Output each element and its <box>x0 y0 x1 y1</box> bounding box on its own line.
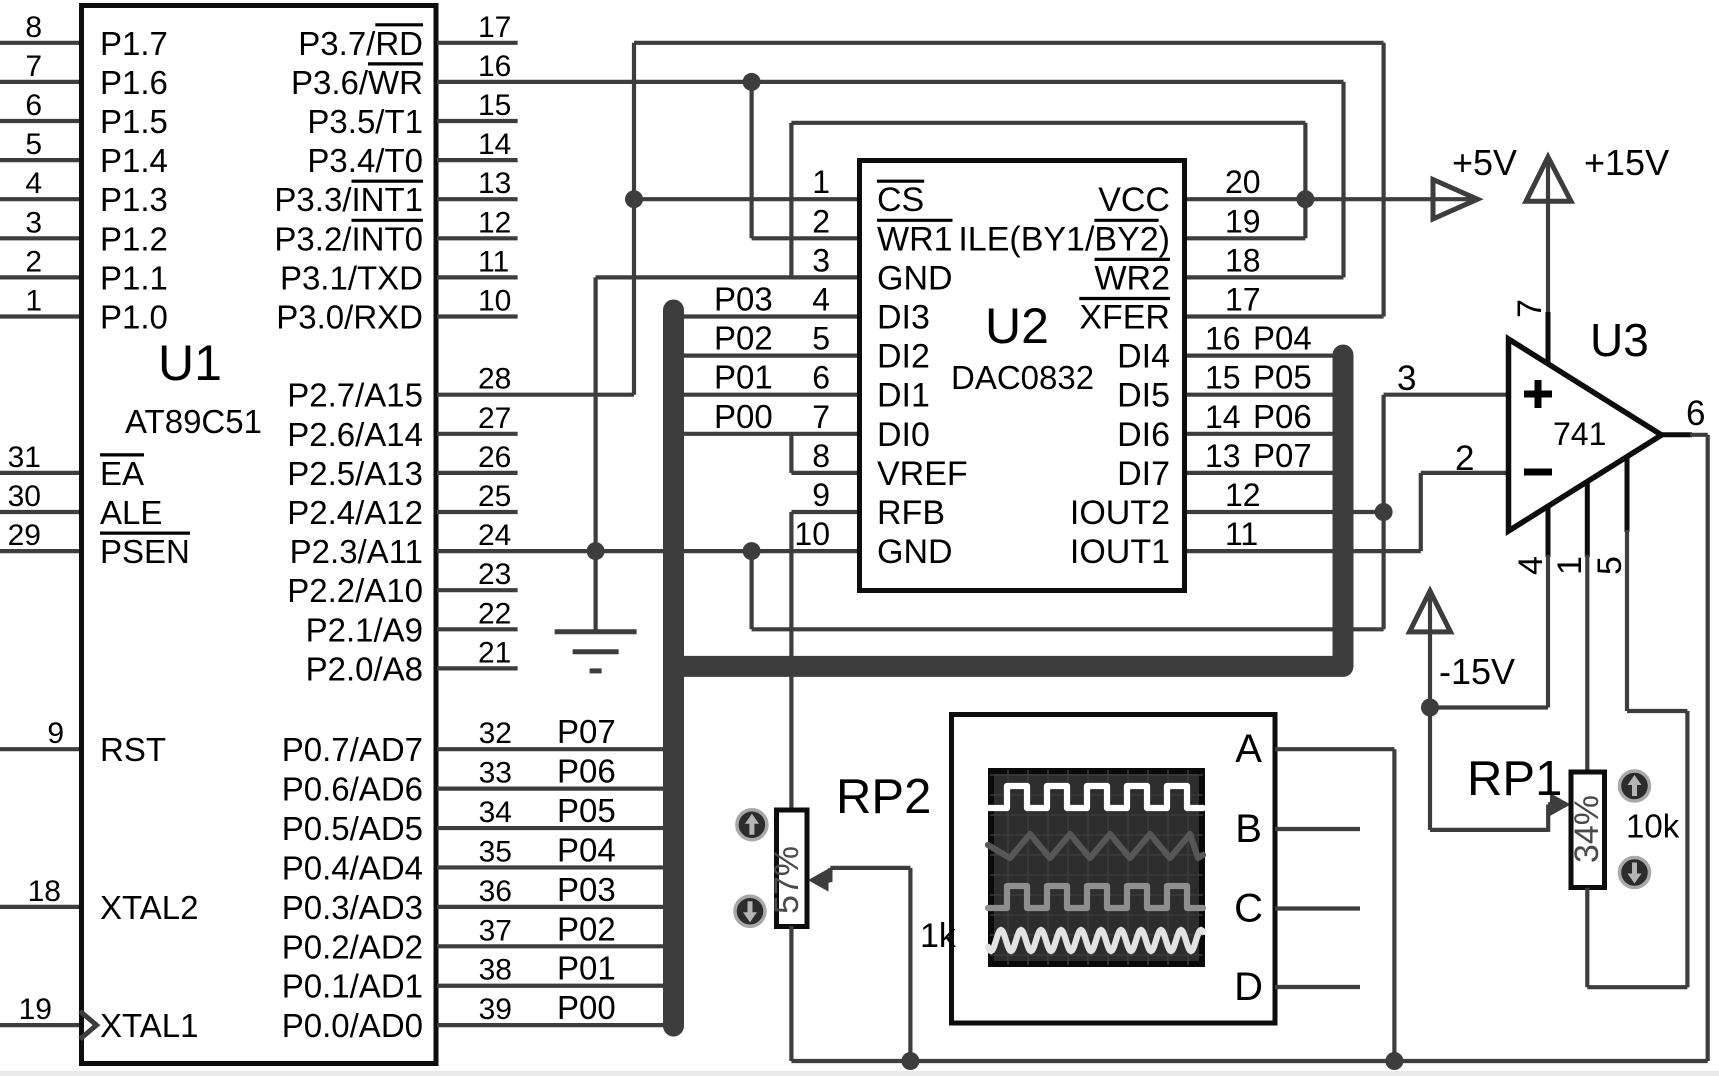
svg-text:D: D <box>1234 965 1263 1009</box>
svg-text:WR1: WR1 <box>877 220 953 258</box>
svg-text:-15V: -15V <box>1439 651 1515 692</box>
wire op-amp -input horizontal (pin2) <box>1421 471 1508 475</box>
waveform channel B (triangle) <box>988 834 1203 858</box>
wire scope A vertical to bottom net <box>1392 749 1396 1061</box>
wire IOUT1 vertical <box>1419 473 1423 551</box>
svg-text:DI6: DI6 <box>1117 416 1170 454</box>
svg-text:19: 19 <box>1225 203 1261 239</box>
junction RP2 wiper/bottom <box>901 1052 919 1070</box>
svg-text:37: 37 <box>479 914 512 947</box>
svg-text:P3.4/T0: P3.4/T0 <box>307 142 423 179</box>
svg-text:38: 38 <box>479 954 512 987</box>
svg-text:RFB: RFB <box>877 494 945 532</box>
svg-text:P07: P07 <box>557 713 616 750</box>
wire U1 pin 3 stub (P1.2) <box>0 236 79 240</box>
waveform channel C (square) <box>988 886 1203 908</box>
wire net CS top horizontal <box>634 41 1384 45</box>
svg-text:U1: U1 <box>158 335 222 391</box>
wire net P07: U2 DI7 (pin 13) to bus <box>1187 471 1343 475</box>
op-amp pin5 stub <box>1625 458 1630 533</box>
svg-text:P2.2/A10: P2.2/A10 <box>287 572 423 609</box>
svg-text:U3: U3 <box>1590 314 1649 366</box>
wire net P05: U2 DI5 (pin 15) to bus <box>1187 393 1343 397</box>
wire net CS vertical x634 <box>632 43 636 395</box>
RP2 wiper arrow <box>822 878 830 883</box>
svg-text:2: 2 <box>812 203 830 239</box>
junction GND ext <box>743 542 761 560</box>
bus horizontal + right vertical <box>674 355 1344 666</box>
svg-text:6: 6 <box>25 89 42 122</box>
svg-text:35: 35 <box>479 835 512 868</box>
wire net WR vertical to WR1 <box>749 82 753 238</box>
wire GND vertical to ground symbol <box>593 551 597 630</box>
RP1 up button <box>1620 771 1650 801</box>
wire GND ext vertical up to IOUT2 row <box>1381 512 1385 629</box>
wire RP2 wiper horizontal <box>830 866 910 870</box>
wire U1 pin 23 stub (P2.2/A10) <box>437 588 518 592</box>
svg-text:1: 1 <box>25 285 42 318</box>
svg-text:741: 741 <box>1553 416 1606 452</box>
wire U2 XFER pin17 stub <box>1187 314 1384 318</box>
svg-text:P1.5: P1.5 <box>100 103 168 140</box>
svg-text:26: 26 <box>478 441 511 474</box>
svg-text:15: 15 <box>1205 360 1241 396</box>
wire U1 pin 1 stub (P1.0) <box>0 314 79 318</box>
wire -15V down to RP1 wiper <box>1428 708 1432 830</box>
wire U1 pin 7 stub (P1.6) <box>0 80 79 84</box>
svg-text:P0.5/AD5: P0.5/AD5 <box>282 810 423 847</box>
wire pin4 vertical to -15V <box>1546 555 1550 708</box>
svg-text:CS: CS <box>877 181 924 219</box>
svg-text:27: 27 <box>478 402 511 435</box>
svg-text:11: 11 <box>1225 516 1258 552</box>
svg-text:2: 2 <box>1455 439 1474 478</box>
wire -15V to pin4 <box>1430 705 1548 709</box>
svg-text:P1.1: P1.1 <box>100 259 168 296</box>
svg-text:11: 11 <box>478 245 509 278</box>
wire GND ext horizontal to IOUT2 <box>752 627 1384 631</box>
wire U2 RFB pin9 stub <box>791 510 857 514</box>
svg-text:DAC0832: DAC0832 <box>951 359 1094 396</box>
wire U1 pin 8 stub (P1.7) <box>0 41 79 45</box>
wire op-amp +input horizontal (pin3) <box>1384 393 1508 397</box>
wire U1 pin 32 P0.7/AD7 to P0 bus <box>437 747 674 751</box>
svg-text:17: 17 <box>1225 282 1261 318</box>
svg-text:WR2: WR2 <box>1094 259 1170 297</box>
wire U1 pin 9 stub (RST) <box>0 747 79 751</box>
svg-text:3: 3 <box>812 242 830 278</box>
ground symbol <box>555 629 637 634</box>
svg-text:P0.0/AD0: P0.0/AD0 <box>282 1007 423 1044</box>
wire U1 pin 18 stub (XTAL2) <box>0 905 79 909</box>
svg-text:4: 4 <box>1512 556 1550 575</box>
svg-text:P04: P04 <box>557 831 616 868</box>
RP2 down button <box>735 896 765 926</box>
wire U2 GND pin3 to GND vertical <box>596 275 857 279</box>
U2 overline XFER <box>1079 297 1170 300</box>
svg-text:P2.1/A9: P2.1/A9 <box>306 611 423 648</box>
svg-text:30: 30 <box>8 480 41 513</box>
wire U1 pin 30 stub (ALE) <box>0 510 79 514</box>
wire net ILE left vertical down to GND row <box>789 123 793 278</box>
svg-text:P3.7/RD: P3.7/RD <box>298 25 423 62</box>
wire net P00: bus to U2 DI0 (pin 7) <box>674 432 858 436</box>
svg-text:7: 7 <box>25 50 42 83</box>
wire U2 IOUT1 pin11 stub <box>1187 549 1421 553</box>
svg-text:P3.3/INT1: P3.3/INT1 <box>274 181 423 218</box>
svg-text:P02: P02 <box>714 320 773 357</box>
svg-text:U2: U2 <box>985 298 1049 354</box>
svg-text:ILE(BY1/BY2): ILE(BY1/BY2) <box>958 220 1170 258</box>
svg-text:13: 13 <box>1205 438 1241 474</box>
svg-text:7: 7 <box>812 399 830 435</box>
svg-text:19: 19 <box>19 993 52 1026</box>
bus P0 left vertical <box>663 310 684 1026</box>
svg-text:VCC: VCC <box>1098 181 1170 219</box>
IC U1 AT89C51 body <box>82 6 437 1064</box>
wire net CS horizontal to U2 CS pin1 <box>634 197 857 201</box>
wire U1 pin 22 stub (P2.1/A9) <box>437 627 518 631</box>
wire VREF link vertical from DI0 row <box>789 434 793 473</box>
svg-text:6: 6 <box>1686 394 1705 433</box>
svg-text:P3.1/TXD: P3.1/TXD <box>280 259 423 296</box>
svg-text:33: 33 <box>479 757 512 790</box>
svg-text:32: 32 <box>479 717 512 750</box>
svg-text:DI5: DI5 <box>1117 377 1170 415</box>
svg-text:B: B <box>1235 807 1262 851</box>
overline INT0 <box>352 219 424 222</box>
wire op-amp +input vertical <box>1381 395 1385 512</box>
svg-text:VREF: VREF <box>877 455 968 493</box>
svg-text:P3.6/WR: P3.6/WR <box>291 64 423 101</box>
svg-text:PSEN: PSEN <box>100 533 190 570</box>
svg-text:1: 1 <box>812 164 830 200</box>
svg-text:P0.1/AD1: P0.1/AD1 <box>282 968 423 1005</box>
wire bottom net Vout <box>791 1059 1707 1063</box>
RP2 up button <box>737 810 767 840</box>
svg-text:2: 2 <box>25 245 42 278</box>
op-amp plus symbol <box>1524 391 1552 398</box>
wire U2 VREF pin8 stub <box>791 471 857 475</box>
svg-text:DI4: DI4 <box>1117 338 1170 376</box>
svg-text:+15V: +15V <box>1584 142 1669 183</box>
svg-text:DI7: DI7 <box>1117 455 1170 493</box>
wire U1 pin 27 stub (P2.6/A14) <box>437 432 518 436</box>
wire U2 WR1 pin2 stub <box>752 236 857 240</box>
wire U1 pin 35 P0.4/AD4 to P0 bus <box>437 865 674 869</box>
svg-text:P03: P03 <box>557 871 616 908</box>
svg-text:1k: 1k <box>920 917 957 955</box>
wire RP2 wiper vertical down <box>908 868 912 1061</box>
waveform channel D (sine) <box>988 930 1203 951</box>
wire RP2 bottom terminal <box>789 926 793 1061</box>
svg-text:GND: GND <box>877 533 953 571</box>
wire U1 pin 13 stub (P3.3/INT1) <box>437 197 518 201</box>
junction WR <box>743 73 761 91</box>
power symbol -15V arrow <box>1410 591 1451 632</box>
svg-text:DI3: DI3 <box>877 299 930 337</box>
junction CS <box>625 190 643 208</box>
RP1 wiper arrow <box>1548 802 1556 807</box>
op-amp pin1 stub <box>1585 482 1590 557</box>
U2 overline WR2 <box>1095 258 1171 261</box>
svg-text:8: 8 <box>25 11 42 44</box>
svg-text:P1.4: P1.4 <box>100 142 168 179</box>
svg-text:A: A <box>1235 727 1262 771</box>
svg-text:21: 21 <box>478 636 511 669</box>
junction IOUT2/+in/GND <box>1375 503 1393 521</box>
overline INT1 <box>352 180 424 183</box>
wire scope channel C stub <box>1275 906 1360 910</box>
svg-text:DI2: DI2 <box>877 338 930 376</box>
svg-text:12: 12 <box>478 206 511 239</box>
wire U1 pin 26 stub (P2.5/A13) <box>437 471 518 475</box>
svg-text:RP1: RP1 <box>1467 752 1562 806</box>
svg-text:C: C <box>1234 887 1263 931</box>
svg-text:3: 3 <box>1397 359 1416 398</box>
wire net GND: U1 pin24 P2.3/A11 through to U2 GND pin10 <box>437 549 857 553</box>
wire U1 pin 12 stub (P3.2/INT0) <box>437 236 518 240</box>
wire U1 pin 25 stub (P2.4/A12) <box>437 510 518 514</box>
wire RP2 wiper jog <box>828 868 832 882</box>
svg-text:P03: P03 <box>714 281 773 318</box>
svg-text:P0.2/AD2: P0.2/AD2 <box>282 928 423 965</box>
svg-text:16: 16 <box>1205 321 1241 357</box>
wire U2 VCC pin20 to +5V arrow <box>1187 197 1476 201</box>
svg-text:4: 4 <box>25 167 42 200</box>
svg-text:P01: P01 <box>557 950 616 987</box>
wire net P03: bus to U2 DI3 (pin 4) <box>674 314 858 318</box>
wire U1 pin 15 stub (P3.5/T1) <box>437 119 518 123</box>
wire U1 pin 29 stub (PSEN) <box>0 549 79 553</box>
svg-text:P2.3/A11: P2.3/A11 <box>290 533 423 570</box>
svg-text:P0.4/AD4: P0.4/AD4 <box>282 849 423 886</box>
svg-text:P1.2: P1.2 <box>100 220 168 257</box>
svg-text:18: 18 <box>28 875 61 908</box>
RP1 down button <box>1620 858 1650 888</box>
wire pin1 vertical to RP1 top <box>1585 555 1589 770</box>
svg-text:6: 6 <box>812 360 830 396</box>
overline RD <box>375 23 423 26</box>
svg-text:5: 5 <box>25 128 42 161</box>
oscilloscope grid <box>990 770 1203 965</box>
wire RP1 loop right vertical <box>1685 711 1689 987</box>
svg-text:5: 5 <box>1591 556 1629 575</box>
wire U2 IOUT2 pin12 stub <box>1187 510 1384 514</box>
svg-text:10: 10 <box>794 516 830 552</box>
svg-text:P0.6/AD6: P0.6/AD6 <box>282 771 423 808</box>
svg-text:P05: P05 <box>1253 359 1312 396</box>
wire net P01: bus to U2 DI1 (pin 6) <box>674 393 858 397</box>
wire U1 pin 10 stub (P3.0/RXD) <box>437 314 518 318</box>
power symbol +15V arrow <box>1526 157 1571 201</box>
wire net WR: U1 pin16 P3.6/WR to WR1/WR2 verticals <box>437 80 1344 84</box>
potentiometer RP1 body <box>1571 772 1605 888</box>
op-amp pin6 stub <box>1662 432 1693 437</box>
svg-text:P1.3: P1.3 <box>100 181 168 218</box>
U2 overline BY2 <box>1094 219 1158 222</box>
svg-text:25: 25 <box>478 480 511 513</box>
overline WR <box>368 62 423 65</box>
wire U1 pin 11 stub (P3.1/TXD) <box>437 275 518 279</box>
svg-text:IOUT2: IOUT2 <box>1070 494 1170 532</box>
svg-text:15: 15 <box>478 89 511 122</box>
svg-text:34%: 34% <box>1568 795 1606 863</box>
wire U2 ILE pin19 stub <box>1187 236 1305 240</box>
wire U1 pin 5 stub (P1.4) <box>0 158 79 162</box>
svg-text:P06: P06 <box>1253 398 1312 435</box>
svg-text:XTAL1: XTAL1 <box>100 1007 198 1044</box>
svg-text:4: 4 <box>812 282 830 318</box>
svg-text:P0.3/AD3: P0.3/AD3 <box>282 889 423 926</box>
wire U1 pin 2 stub (P1.1) <box>0 275 79 279</box>
svg-text:ALE: ALE <box>100 494 162 531</box>
svg-text:34: 34 <box>479 796 512 829</box>
svg-text:29: 29 <box>8 519 41 552</box>
op-amp pin7 stub <box>1546 312 1551 364</box>
svg-text:7: 7 <box>1511 299 1549 318</box>
svg-text:14: 14 <box>478 128 511 161</box>
svg-text:EA: EA <box>100 455 144 492</box>
IC U2 DAC0832 body <box>860 161 1185 591</box>
svg-text:P1.0: P1.0 <box>100 299 168 336</box>
op-amp minus symbol <box>1524 469 1552 476</box>
PSEN overline <box>100 531 190 534</box>
svg-text:P07: P07 <box>1253 437 1312 474</box>
svg-text:17: 17 <box>478 11 511 44</box>
svg-text:16: 16 <box>478 50 511 83</box>
svg-text:3: 3 <box>25 206 42 239</box>
wire U2 WR2 pin18 stub <box>1187 275 1344 279</box>
wire U1 pin 34 P0.5/AD5 to P0 bus <box>437 826 674 830</box>
op-amp pin4 stub <box>1546 507 1551 557</box>
wire U1 pin 21 stub (P2.0/A8) <box>437 666 518 670</box>
wire net ILE top horizontal <box>791 121 1305 125</box>
wire -15V vertical <box>1428 594 1432 708</box>
U2 overline CS <box>877 180 924 183</box>
wire U1 pin 4 stub (P1.3) <box>0 197 79 201</box>
svg-text:P3.0/RXD: P3.0/RXD <box>276 299 423 336</box>
wire output vertical right edge <box>1706 435 1710 1061</box>
svg-text:P2.7/A15: P2.7/A15 <box>287 377 423 414</box>
wire scope channel D stub <box>1275 985 1360 989</box>
svg-text:P01: P01 <box>714 359 773 396</box>
svg-text:28: 28 <box>478 363 511 396</box>
wire U1 pin 6 stub (P1.5) <box>0 119 79 123</box>
wire GND ext vertical <box>749 551 753 629</box>
svg-text:10k: 10k <box>1626 808 1680 845</box>
wire op-amp pin7 V+ vertical <box>1546 160 1550 316</box>
svg-text:P00: P00 <box>557 989 616 1026</box>
svg-text:DI0: DI0 <box>877 416 930 454</box>
bottom edge strip <box>0 1071 1719 1076</box>
potentiometer RP2 body <box>777 810 808 927</box>
wire RP1 wiper horizontal <box>1430 828 1548 832</box>
svg-text:P0.7/AD7: P0.7/AD7 <box>282 731 423 768</box>
svg-text:P00: P00 <box>714 398 773 435</box>
oscilloscope body <box>952 715 1276 1024</box>
svg-text:13: 13 <box>478 167 511 200</box>
svg-text:18: 18 <box>1225 242 1261 278</box>
svg-text:P2.0/A8: P2.0/A8 <box>306 650 423 687</box>
U2 overline WR1 <box>877 219 953 222</box>
svg-text:9: 9 <box>812 477 830 513</box>
svg-text:P06: P06 <box>557 753 616 790</box>
svg-text:DI1: DI1 <box>877 377 930 415</box>
svg-text:22: 22 <box>478 597 511 630</box>
svg-text:20: 20 <box>1225 164 1261 200</box>
wire net ILE right vertical <box>1303 123 1307 239</box>
svg-text:12: 12 <box>1225 477 1261 513</box>
oscilloscope screen <box>991 771 1202 964</box>
wire U1 pin 19 stub (XTAL1) <box>0 1023 79 1027</box>
svg-text:31: 31 <box>8 441 41 474</box>
svg-text:RST: RST <box>100 731 166 768</box>
wire RP1 loop bottom <box>1587 985 1687 989</box>
svg-text:P05: P05 <box>557 792 616 829</box>
XTAL1 clock chevron <box>80 1011 97 1039</box>
svg-text:36: 36 <box>479 875 512 908</box>
junction VCC/ILE <box>1296 190 1314 208</box>
svg-text:P1.6: P1.6 <box>100 64 168 101</box>
wire net P02: bus to U2 DI2 (pin 5) <box>674 354 858 358</box>
wire U1 pin 39 P0.0/AD0 to P0 bus <box>437 1023 674 1027</box>
wire net WR vertical to WR2 <box>1341 82 1345 278</box>
svg-text:9: 9 <box>47 717 64 750</box>
waveform channel A (square) <box>988 786 1203 808</box>
svg-text:P3.5/T1: P3.5/T1 <box>307 103 423 140</box>
svg-text:P2.6/A14: P2.6/A14 <box>287 416 423 453</box>
svg-text:RP2: RP2 <box>836 770 931 824</box>
wire scope channel A stub <box>1275 747 1394 751</box>
wire net GND vertical x595 <box>593 277 597 551</box>
wire net CS: U1 pin28 P2.7/A15 to vertical x634 <box>437 393 634 397</box>
svg-text:P3.2/INT0: P3.2/INT0 <box>274 220 423 257</box>
svg-text:14: 14 <box>1205 399 1241 435</box>
wire output horizontal <box>1690 433 1708 437</box>
wire U1 pin 14 stub (P3.4/T0) <box>437 158 518 162</box>
svg-text:P04: P04 <box>1253 320 1312 357</box>
svg-text:1: 1 <box>1551 556 1589 575</box>
svg-text:P2.5/A13: P2.5/A13 <box>287 455 423 492</box>
wire U1 pin 37 P0.2/AD2 to P0 bus <box>437 944 674 948</box>
wire RFB vertical down to RP2 <box>789 512 793 809</box>
junction -15V <box>1421 699 1439 717</box>
wire U1 pin 36 P0.3/AD3 to P0 bus <box>437 905 674 909</box>
svg-text:+5V: +5V <box>1452 142 1517 183</box>
wire net P04: U2 DI4 (pin 16) to bus <box>1187 354 1343 358</box>
junction GND row10 <box>587 542 605 560</box>
power symbol +5V arrow (outline) <box>1433 180 1478 219</box>
svg-text:XFER: XFER <box>1079 299 1170 337</box>
wire net CS right vertical to XFER <box>1381 43 1385 317</box>
svg-text:23: 23 <box>478 558 511 591</box>
svg-text:P02: P02 <box>557 910 616 947</box>
svg-text:8: 8 <box>812 438 830 474</box>
svg-text:IOUT1: IOUT1 <box>1070 533 1170 571</box>
wire scope channel B stub <box>1275 827 1360 831</box>
wire U1 pin 33 P0.6/AD6 to P0 bus <box>437 787 674 791</box>
svg-text:AT89C51: AT89C51 <box>125 403 262 440</box>
svg-text:P2.4/A12: P2.4/A12 <box>287 494 423 531</box>
op-amp U3 741 triangle <box>1509 339 1662 531</box>
wire RP1 bottom terminal <box>1585 888 1589 987</box>
svg-text:5: 5 <box>812 321 830 357</box>
wire U1 pin 38 P0.1/AD1 to P0 bus <box>437 984 674 988</box>
svg-text:24: 24 <box>478 519 511 552</box>
wire RP1 wiper jog vertical <box>1546 805 1550 832</box>
wire U1 pin 31 stub (EA) <box>0 471 79 475</box>
